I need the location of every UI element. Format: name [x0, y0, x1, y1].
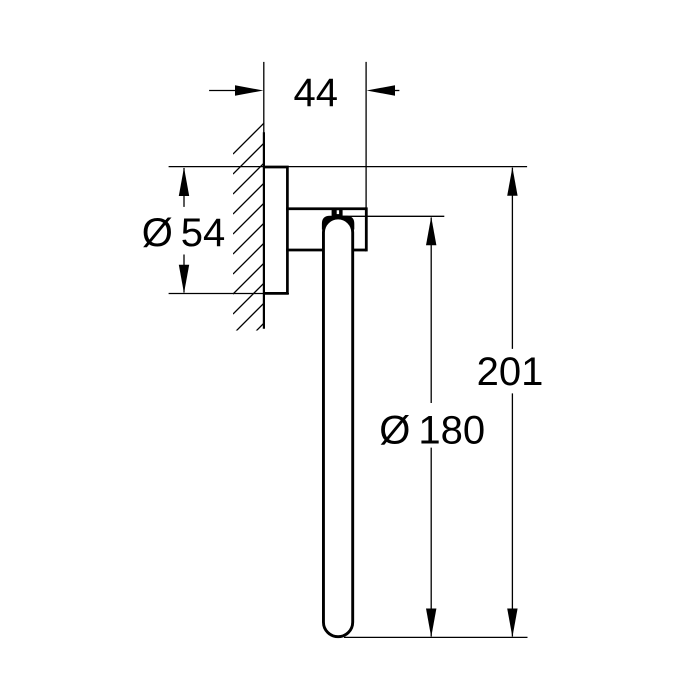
svg-text:201: 201 [477, 350, 544, 394]
arrow 54 up [179, 167, 189, 196]
extension line 44 right [365, 62, 367, 208]
extension line 180 top [340, 215, 444, 217]
extension line 44 left [263, 62, 265, 133]
bracket arm bottom right segment [354, 249, 367, 252]
svg-text:44: 44 [294, 71, 339, 115]
bracket arm right edge [365, 207, 368, 251]
arrow 180 up [426, 217, 436, 246]
pivot pin [332, 210, 343, 217]
towel ring (side view) [323, 218, 352, 637]
wall [263, 132, 265, 329]
dimension line 44 [209, 90, 399, 92]
bracket arm top edge [286, 207, 366, 210]
arrow 54 down [179, 265, 189, 294]
dimension line 54 [183, 168, 185, 293]
arrow 180 down [426, 609, 436, 638]
arrow 44 left [235, 85, 263, 95]
ring top cap [322, 216, 354, 230]
dimension line 180 [430, 218, 432, 637]
bracket arm bottom left segment [286, 249, 323, 252]
extension line top shared (54 / 201) [169, 166, 527, 168]
arrow 44 right [367, 85, 395, 95]
extension line 54 bottom [169, 293, 289, 295]
extension line bottom shared (180 / 201) [344, 636, 528, 638]
wall plate (rosette side view) [264, 167, 287, 293]
svg-text:Ø 54: Ø 54 [142, 211, 226, 255]
wall hatching [233, 123, 265, 355]
dimension line 201 [511, 168, 513, 637]
arrow 201 down [507, 609, 517, 638]
arrow 201 up [507, 167, 517, 196]
svg-text:Ø 180: Ø 180 [379, 409, 485, 453]
pivot pin slot [337, 210, 339, 214]
